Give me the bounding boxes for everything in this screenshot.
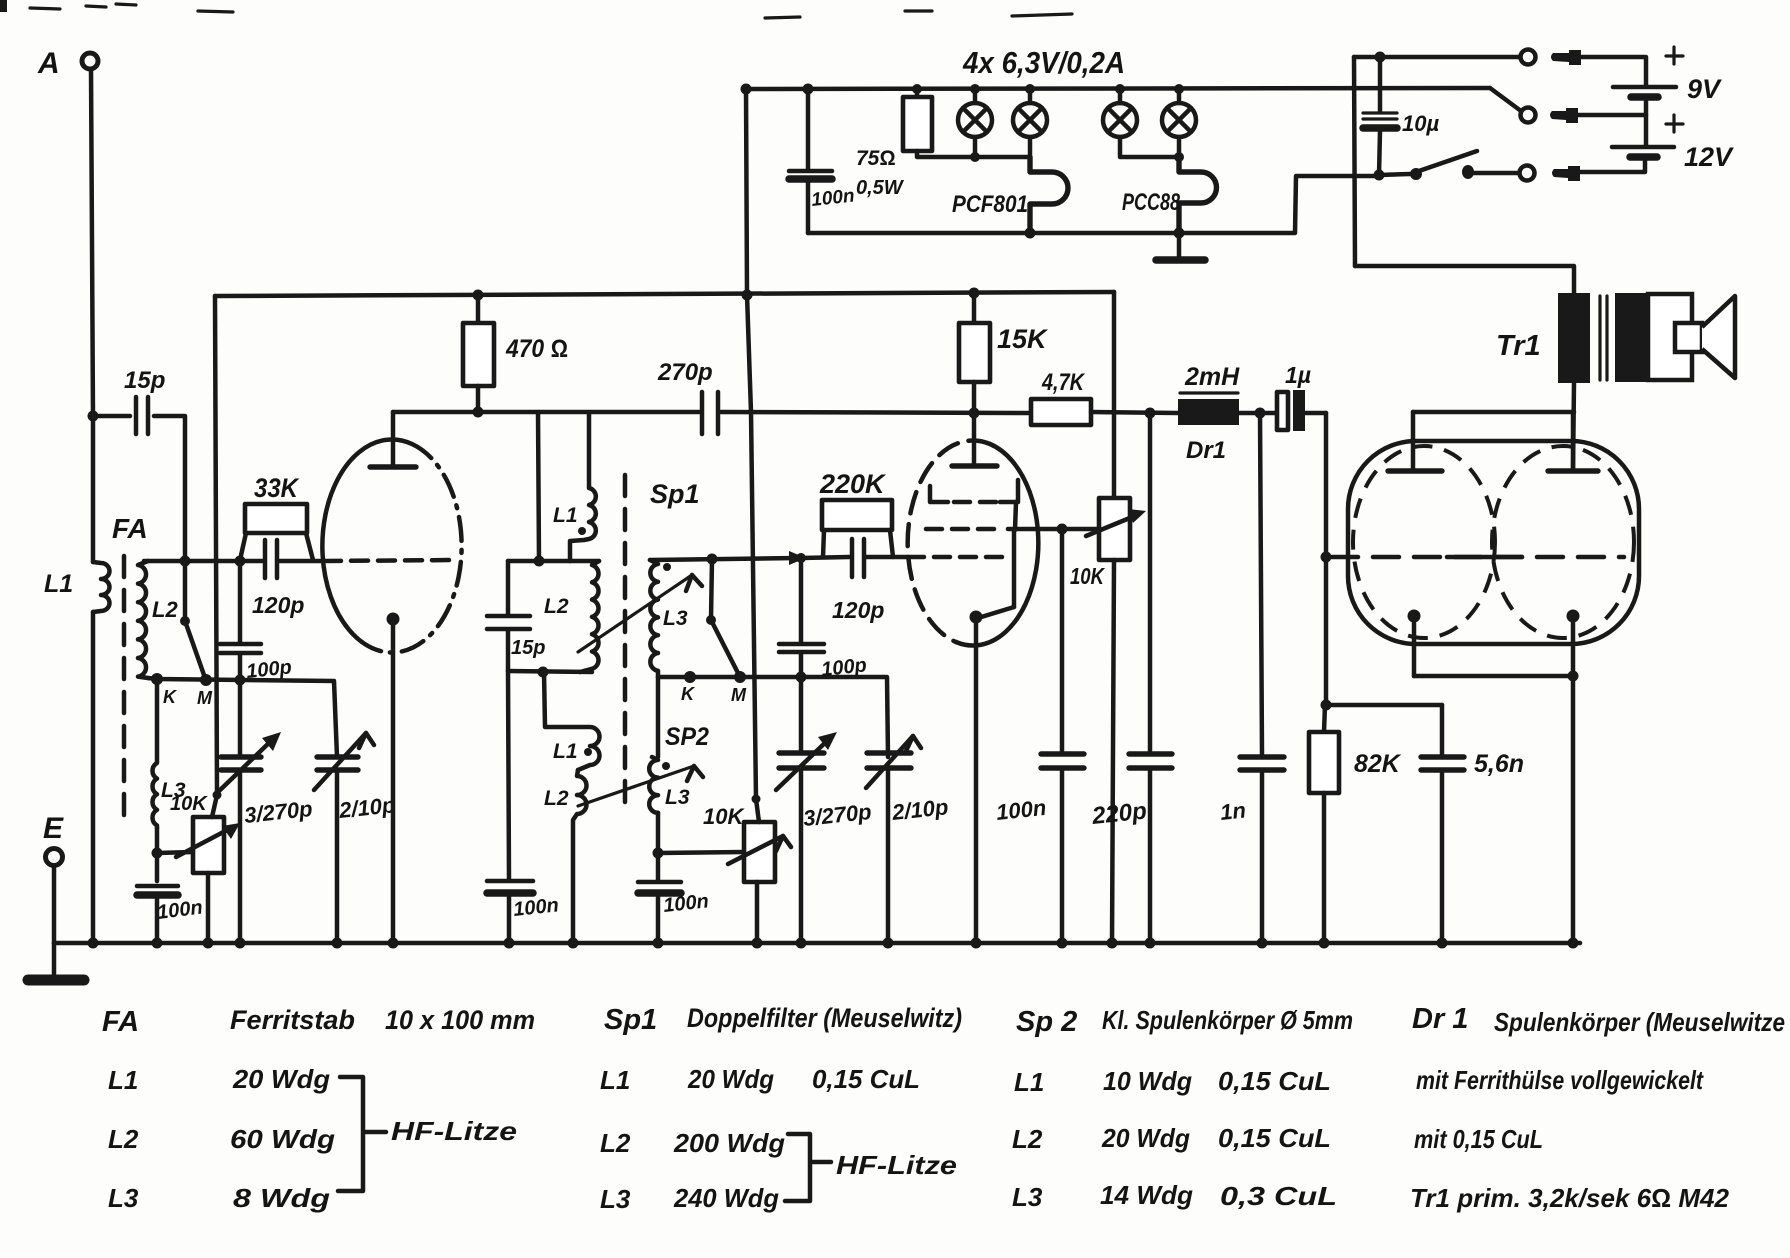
wire cathodes join: [1414, 674, 1573, 679]
svg-text:K: K: [681, 684, 696, 704]
svg-text:4x 6,3V/0,2A: 4x 6,3V/0,2A: [962, 45, 1125, 80]
tube V1 anode: [370, 412, 416, 467]
legend Sp2 L2 row: [1012, 1123, 1331, 1154]
svg-text:L2: L2: [1012, 1124, 1043, 1154]
legend Sp2 L3 row: [1012, 1180, 1337, 1212]
wire pot top feed stage2 long vertical: [746, 89, 761, 822]
ground symbol bottom left: [28, 943, 84, 980]
tube V2 cathode: [970, 611, 983, 944]
tube V2 screen bracket: [930, 480, 1018, 502]
svg-text:2mH: 2mH: [1184, 363, 1240, 391]
svg-text:L2: L2: [544, 595, 569, 618]
node Sp1 anode feed: [534, 556, 545, 567]
resistor 15K: [959, 288, 1049, 414]
svg-text:470 Ω: 470 Ω: [505, 335, 568, 363]
lamp 2: [1013, 84, 1047, 157]
plug top: [1551, 50, 1581, 65]
node 100p bottom stage1: [235, 675, 246, 686]
svg-text:120p: 120p: [832, 597, 884, 623]
wire switch pivot stage1: [183, 561, 188, 620]
legend Sp1 L1 row: [600, 1064, 920, 1095]
svg-text:14 Wdg: 14 Wdg: [1100, 1180, 1193, 1210]
switch arm stage1: [180, 616, 204, 675]
svg-text:mit Ferrithülse vollgewickelt: mit Ferrithülse vollgewickelt: [1416, 1065, 1704, 1095]
wire switch pivot stage2: [711, 559, 712, 619]
node L3 tap stage2: [653, 848, 664, 859]
legend Sp1 bracket: [785, 1134, 831, 1201]
svg-text:20 Wdg: 20 Wdg: [1101, 1123, 1190, 1153]
svg-text:L3: L3: [108, 1183, 139, 1213]
svg-text:L2: L2: [152, 597, 178, 622]
coil L1 FA antenna: [93, 562, 110, 612]
coil L3 Sp1: [650, 560, 688, 677]
node heater rail left: [741, 84, 752, 95]
socket bottom: [1520, 166, 1535, 181]
socket top: [1521, 50, 1536, 65]
node 82K top: [1321, 700, 1332, 711]
node B+ heater drop: [742, 290, 753, 301]
svg-text:240 Wdg: 240 Wdg: [673, 1183, 779, 1213]
wire Sp1 100n drop: [508, 671, 509, 880]
wire pot bottom stage2: [755, 882, 760, 943]
plus sign 12V: [1666, 115, 1683, 132]
svg-text:L1: L1: [600, 1065, 630, 1095]
svg-text:0,3 CuL: 0,3 CuL: [1220, 1181, 1337, 1211]
node 15K anode wire: [969, 408, 980, 419]
svg-text:FA: FA: [112, 513, 148, 544]
wire L3 Sp2 down: [656, 677, 661, 881]
wire anodes V3: [1413, 410, 1574, 415]
legend Sp1 header: [604, 1003, 962, 1036]
node Sp2 feed: [538, 667, 549, 678]
resistor 4,7K: [1031, 369, 1178, 425]
capacitor 100n heater: [789, 84, 856, 234]
coil L1 Sp2: [544, 672, 600, 770]
arrow on grid wire stage2: [789, 551, 806, 565]
contact K stage2: [684, 671, 696, 683]
legend FA L2 row: [108, 1124, 335, 1154]
tube V2 anode: [952, 413, 997, 466]
legend Sp1 L2 row: [600, 1128, 785, 1158]
svg-text:5,6n: 5,6n: [1474, 750, 1524, 778]
wire pot top feed stage1: [212, 296, 222, 817]
wire heater return: [808, 176, 1377, 233]
svg-text:Dr1: Dr1: [1186, 437, 1226, 464]
coupling arrow Sp1: [578, 575, 702, 652]
wire L3 to pot stage2: [658, 852, 744, 853]
legend Sp2 L1 row: [1014, 1066, 1331, 1097]
svg-text:mit 0,15 CuL: mit 0,15 CuL: [1414, 1124, 1543, 1154]
capacitor 1u coupling: [1277, 362, 1326, 431]
tube V2 suppressor link: [978, 530, 1014, 618]
node 10u top: [1375, 52, 1386, 63]
potentiometer 10K stage1: [170, 793, 240, 873]
node 15p drop: [180, 556, 191, 567]
potentiometer 10K detector: [1070, 498, 1146, 589]
legend FA header: [102, 1005, 535, 1038]
svg-text:L1: L1: [553, 504, 578, 527]
svg-text:200 Wdg: 200 Wdg: [673, 1128, 785, 1158]
coil L2 Sp2: [544, 770, 587, 943]
legend Sp2 header: [1016, 1005, 1353, 1038]
tube V3 envelope: [1348, 441, 1639, 644]
wire plug top to 9V: [1581, 57, 1646, 85]
trimmer 3/270p stage1: [218, 680, 314, 943]
svg-text:E: E: [43, 812, 64, 845]
wire antenna lower: [91, 612, 96, 943]
node grid V3: [1321, 552, 1332, 563]
ferrite rod dashed: [122, 556, 127, 828]
node screen 100n: [1057, 524, 1068, 535]
svg-text:L1: L1: [553, 740, 578, 763]
svg-text:SP2: SP2: [665, 723, 709, 751]
node L3 tap stage1: [152, 848, 163, 859]
resistor 75R: [856, 84, 1030, 199]
svg-text:HF-Litze: HF-Litze: [391, 1116, 517, 1146]
resistor 33K: [240, 473, 313, 560]
wire E to bus: [52, 866, 57, 943]
tube V2 envelope dashed left: [908, 440, 990, 642]
wire ground bus: [54, 941, 1580, 946]
trimmer 3/270p stage2: [776, 677, 873, 943]
svg-text:10K: 10K: [703, 804, 745, 829]
tube V3 cathode a: [1408, 610, 1421, 677]
svg-text:A: A: [37, 47, 60, 80]
svg-text:L3: L3: [663, 607, 688, 630]
svg-text:8 Wdg: 8 Wdg: [233, 1183, 330, 1213]
node switch drop stage2: [707, 554, 718, 565]
svg-text:75Ω: 75Ω: [856, 147, 896, 170]
svg-text:0,15 CuL: 0,15 CuL: [1218, 1123, 1331, 1153]
capacitor 100p stage2: [779, 558, 868, 681]
terminal A socket: [82, 53, 98, 69]
svg-text:10K: 10K: [1070, 563, 1105, 589]
tube V3 anode a: [1388, 412, 1442, 471]
svg-text:220K: 220K: [819, 469, 887, 499]
lamp 4: [1162, 84, 1196, 162]
svg-text:Spulenkörper (Meuselwitze: Spulenkörper (Meuselwitze: [1494, 1007, 1785, 1037]
contact M stage2: [734, 671, 746, 683]
legend Sp1 L3 row: [600, 1183, 779, 1214]
wire Tr1 primary bottom: [1573, 383, 1574, 471]
wire plug mid to battery junction: [1578, 113, 1646, 118]
svg-text:Dr 1: Dr 1: [1412, 1003, 1468, 1035]
svg-text:4,7K: 4,7K: [1041, 369, 1085, 396]
capacitor 10u: [1363, 57, 1439, 175]
tube V2 grid dashes: [908, 555, 1010, 560]
plus sign 9V: [1666, 47, 1683, 64]
legend Dr1 header: [1412, 1003, 1785, 1037]
wire cathode to bus: [1571, 676, 1576, 943]
svg-text:Sp1: Sp1: [650, 479, 700, 509]
terminal E socket: [46, 849, 63, 866]
svg-text:M: M: [197, 688, 213, 708]
ground symbol heater: [1156, 233, 1205, 260]
svg-text:60 Wdg: 60 Wdg: [230, 1124, 335, 1154]
svg-text:1µ: 1µ: [1285, 362, 1311, 388]
tube V1 envelope dashed right: [372, 444, 462, 652]
resistor 220K: [819, 469, 893, 557]
svg-text:L3: L3: [600, 1184, 631, 1214]
capacitor 100n stage2: [995, 529, 1084, 943]
wire L3 down: [155, 828, 160, 881]
battery 12V: [1580, 142, 1734, 172]
wire K-M row stage2: [658, 677, 888, 757]
wire Sp1 bottom node: [508, 671, 592, 672]
tube V2 screen row: [926, 502, 1100, 530]
svg-text:L3: L3: [665, 786, 690, 809]
switch on-off: [1374, 151, 1519, 181]
wire battery left vertical: [1354, 57, 1355, 266]
wire 1u to grid V3: [1324, 413, 1329, 557]
capacitor 270p: [657, 359, 1031, 434]
transformer Tr1 primary: [1558, 293, 1590, 383]
tube V2 envelope solid right: [956, 444, 1038, 646]
choke Dr1 2mH: [1178, 363, 1240, 464]
wire heater rail to socket mid: [1490, 88, 1521, 111]
trimmer 2/10p stage1: [314, 733, 396, 943]
svg-text:Tr1: Tr1: [1496, 330, 1541, 362]
svg-text:15K: 15K: [997, 324, 1049, 354]
node cathode drop: [1568, 671, 1579, 682]
legend FA L1 row: [108, 1064, 330, 1095]
svg-text:L1: L1: [108, 1065, 138, 1095]
svg-text:1n: 1n: [1219, 797, 1247, 825]
node 100p top stage1: [235, 556, 246, 567]
coil L2 FA: [138, 561, 148, 678]
transformer Tr1 secondary: [1615, 293, 1648, 382]
heater PCC88: [1122, 157, 1217, 239]
svg-text:20 Wdg: 20 Wdg: [687, 1064, 774, 1094]
svg-text:120p: 120p: [252, 592, 304, 618]
plug bottom: [1552, 166, 1580, 181]
wire Dr1 to 1u: [1239, 411, 1276, 416]
capacitor 15p: [93, 367, 185, 561]
wire grid stage2 from L3: [650, 558, 797, 560]
wire battery top row: [1354, 55, 1520, 60]
capacitor 100n Sp2: [638, 882, 710, 943]
svg-text:10K: 10K: [170, 793, 208, 815]
transformer Tr1 core: [1600, 296, 1607, 380]
svg-text:0,5W: 0,5W: [856, 177, 905, 199]
svg-text:33K: 33K: [254, 473, 300, 503]
svg-text:9V: 9V: [1687, 74, 1722, 104]
bus junction dots: [88, 938, 1579, 949]
wire grid leak node: [1324, 557, 1329, 705]
capacitor 220p: [1090, 413, 1172, 943]
svg-text:FA: FA: [102, 1006, 139, 1038]
capacitor 100n FA: [137, 886, 204, 943]
capacitor 100n Sp1: [487, 881, 560, 943]
lamp 3: [1103, 84, 1179, 157]
contact M stage1: [200, 674, 212, 686]
coil L1 Sp1: [553, 413, 596, 561]
contact K stage1: [151, 673, 163, 685]
tube V1 cathode: [387, 613, 400, 944]
svg-text:Sp 2: Sp 2: [1016, 1006, 1077, 1038]
svg-text:82K: 82K: [1354, 750, 1402, 778]
capacitor 120p stage2: [832, 539, 908, 623]
capacitor 1n: [1219, 413, 1284, 943]
legend FA L3 row: [108, 1183, 330, 1213]
resistor 470R: [463, 290, 568, 413]
speaker frame: [1648, 294, 1692, 380]
wire Sp1 top node: [508, 559, 599, 564]
tube V3 system b dashed: [1492, 446, 1634, 638]
svg-text:270p: 270p: [657, 359, 713, 386]
tube V1 envelope solid left: [322, 440, 412, 648]
tube V3 system a dashed: [1353, 446, 1495, 638]
capacitor 120p stage1: [252, 540, 304, 618]
wire B+ rail: [215, 292, 1114, 296]
battery 9V: [1613, 74, 1722, 146]
svg-text:K: K: [163, 687, 178, 707]
svg-text:PCC88: PCC88: [1122, 189, 1180, 216]
svg-text:10µ: 10µ: [1402, 111, 1439, 136]
svg-text:L3: L3: [1012, 1182, 1043, 1212]
node antenna-15p: [88, 411, 99, 422]
wire L3 to pot stage1: [157, 852, 193, 853]
coil L2 Sp1: [544, 561, 599, 672]
svg-text:Doppelfilter (Meuselwitz): Doppelfilter (Meuselwitz): [687, 1003, 962, 1033]
svg-text:Ferritstab: Ferritstab: [230, 1005, 355, 1035]
node 100p bottom stage2: [796, 672, 807, 683]
node 1n: [1255, 408, 1266, 419]
tube V1 grid dashes: [324, 560, 457, 561]
wire grid stage2 to 220K: [801, 557, 849, 558]
svg-text:0,15 CuL: 0,15 CuL: [1218, 1066, 1331, 1096]
heater PCF801: [952, 157, 1068, 239]
trimmer 2/10p stage2: [866, 736, 949, 943]
wire pot bottom stage1: [206, 873, 211, 943]
coupling arrow Sp2: [578, 766, 703, 806]
svg-text:Sp1: Sp1: [604, 1004, 657, 1036]
speaker cone: [1702, 296, 1735, 378]
svg-text:L2: L2: [108, 1124, 139, 1154]
wire heater rail: [746, 88, 1490, 89]
wire B+ drop to 10K pot: [1112, 292, 1117, 498]
node 220p: [1145, 408, 1156, 419]
svg-text:PCF801: PCF801: [952, 191, 1028, 218]
svg-text:15p: 15p: [511, 637, 545, 659]
svg-text:HF-Litze: HF-Litze: [836, 1150, 957, 1180]
coil L3 Sp2: [649, 757, 690, 813]
capacitor 5,6n: [1421, 705, 1524, 943]
legend FA bracket: [338, 1077, 386, 1191]
speaker magnet: [1675, 323, 1702, 352]
coil L3 FA: [152, 679, 157, 828]
socket mid: [1521, 108, 1536, 123]
capacitor 15p Sp1: [487, 561, 545, 671]
wire grid stage1: [144, 559, 262, 564]
svg-text:Tr1 prim. 3,2k/sek 6Ω M42: Tr1 prim. 3,2k/sek 6Ω M42: [1410, 1183, 1730, 1213]
svg-text:12V: 12V: [1684, 142, 1734, 172]
switch arm stage2: [706, 615, 738, 673]
wire K-M row stage1: [148, 678, 337, 757]
svg-text:L2: L2: [600, 1128, 631, 1158]
tube V3 anode b: [1548, 412, 1598, 471]
resistor 82K: [1309, 705, 1402, 943]
wire drop to Sp1 top: [538, 412, 539, 561]
svg-text:L1: L1: [1014, 1067, 1044, 1097]
svg-text:Kl. Spulenkörper Ø 5mm: Kl. Spulenkörper Ø 5mm: [1102, 1005, 1353, 1035]
svg-text:M: M: [731, 685, 747, 705]
wire node to 5,6n: [1326, 703, 1442, 708]
plug mid: [1550, 108, 1578, 123]
scan artifact marks top edge: [0, 0, 1072, 18]
node 100p top stage2: [796, 553, 806, 563]
wire pot bottom detector: [1112, 560, 1114, 943]
svg-text:100n: 100n: [995, 795, 1047, 825]
svg-text:10 Wdg: 10 Wdg: [1103, 1066, 1192, 1096]
wire anode V1 to Sp1: [393, 410, 699, 415]
svg-text:L2: L2: [544, 787, 569, 810]
capacitor 100p stage1: [220, 561, 293, 683]
svg-text:15p: 15p: [124, 367, 165, 394]
svg-text:0,15 CuL: 0,15 CuL: [812, 1064, 920, 1094]
svg-text:10 x 100 mm: 10 x 100 mm: [385, 1005, 535, 1035]
lamp 1: [958, 84, 992, 162]
svg-text:L1: L1: [44, 570, 73, 598]
wire switch output to Tr1: [1355, 266, 1574, 293]
node 470R anode wire: [473, 407, 484, 418]
tube V3 cathode b: [1567, 610, 1580, 677]
tube V3 grid dashes: [1332, 555, 1624, 560]
wire antenna vertical: [91, 69, 93, 562]
potentiometer 10K stage2: [703, 804, 791, 882]
Sp1 core dashed: [623, 475, 628, 814]
svg-text:20 Wdg: 20 Wdg: [232, 1064, 330, 1094]
